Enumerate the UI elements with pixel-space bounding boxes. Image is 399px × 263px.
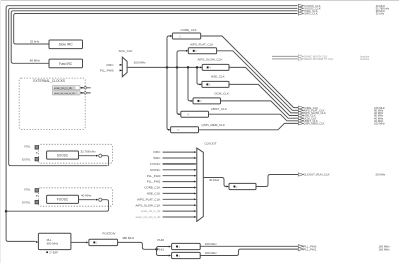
svg-text:160 MHz: 160 MHz <box>379 247 391 251</box>
wire AIPS_PLAT_CLK fan to output <box>217 51 299 111</box>
svg-text:40 MHz: 40 MHz <box>81 194 92 198</box>
wire CORE_CLK fan to output <box>201 36 299 108</box>
wire FXOSC pad to left riser <box>6 200 109 212</box>
output arrow QSPI_MEM_CLK <box>298 122 385 126</box>
svg-text:LBIST_CLK: LBIST_CLK <box>211 107 227 111</box>
svg-text:HSE_CLK: HSE_CLK <box>211 74 225 78</box>
wire FXOSC net: top-left outer loop from FXOSC output to FXOSC_CLK arrow and down to PLL <box>6 6 297 242</box>
output arrow AIPS_PLAT_CLK <box>298 109 384 113</box>
output arrow PLL_PHI0 <box>298 245 390 249</box>
output arrow FIRC_CLK <box>298 9 385 13</box>
svg-text:HSE_CLK: HSE_CLK <box>147 192 161 196</box>
pin XTAL of SXOSC <box>24 145 39 154</box>
svg-text:40 MHz: 40 MHz <box>209 178 220 182</box>
svg-text:PLL_PHI1: PLL_PHI1 <box>304 247 317 251</box>
svg-text:FXOSC: FXOSC <box>57 198 69 202</box>
pad SXOSC output <box>99 154 102 157</box>
svg-text:emac_mii_rmii_tx_clk: emac_mii_rmii_tx_clk <box>54 92 76 95</box>
wire EMAC MII RX (inactive) <box>272 55 370 59</box>
svg-text:XTAL: XTAL <box>24 188 31 192</box>
divider QSPI_MEM_CLK /1 <box>171 123 225 133</box>
pad FXOSC output <box>99 198 102 201</box>
note PLL exponent footnote <box>46 251 58 255</box>
svg-text:SXOSC: SXOSC <box>150 168 161 172</box>
output arrow FXOSC_CLK <box>298 4 385 8</box>
wire QSPI_MEM_CLK fan to output <box>199 123 299 129</box>
output arrow LBIST_CLK <box>298 119 384 123</box>
wire AIPS_SLOW_CLK fan to output <box>229 67 299 113</box>
junction SCG bus tap DCM <box>187 66 190 69</box>
oscillator Fast IRC <box>49 59 83 68</box>
svg-text:PHI1: PHI1 <box>157 248 164 252</box>
pin SXOSC into CLKOUT mux <box>150 168 197 172</box>
svg-text:48 MHz: 48 MHz <box>30 59 41 63</box>
svg-text:DCM_CLK: DCM_CLK <box>215 91 229 95</box>
divider LBIST_CLK /4 <box>181 107 227 117</box>
svg-text:32 kHz: 32 kHz <box>30 39 40 43</box>
wire CLKOUT divider to output arrow <box>256 175 299 187</box>
pin diamond emac_mii_rmii_tx_clk <box>80 91 91 94</box>
svg-text:emac_mii_rmii_tx_clk: emac_mii_rmii_tx_clk <box>136 215 161 219</box>
svg-text:PLL_PHI1: PLL_PHI1 <box>147 180 161 184</box>
node emac_mii_rmii_tx_clk <box>53 91 81 95</box>
svg-text:FIRC: FIRC <box>107 63 115 67</box>
svg-text:PLL_PHI0: PLL_PHI0 <box>147 174 161 178</box>
wire LBIST_CLK fan to output <box>209 114 299 121</box>
svg-text:emac_mii_rx_clk: emac_mii_rx_clk <box>141 209 161 213</box>
divider HSE_CLK /2 <box>202 74 229 87</box>
svg-text:QSPI_MEM_CLK: QSPI_MEM_CLK <box>304 122 325 126</box>
pin FIRC into SCG mux <box>107 63 123 67</box>
output arrow DCM_CLK <box>298 116 384 120</box>
wire tap to QSPI divider <box>167 67 169 129</box>
divider CLKOUT /2 <box>229 183 256 189</box>
wire CLKOUT mux output to postdivider <box>203 178 226 187</box>
svg-text:SCG_CLK: SCG_CLK <box>119 49 133 53</box>
svg-text:AIPS_PLAT_CLK: AIPS_PLAT_CLK <box>190 43 213 47</box>
pin CORE_CLK into CLKOUT mux <box>144 186 196 190</box>
divider AIPS_SLOW_CLK /4 (in line with bus) <box>198 57 230 70</box>
component PLL <box>38 233 71 249</box>
divider CORE_CLK /1 <box>172 28 200 39</box>
svg-text:FXOSC: FXOSC <box>150 162 161 166</box>
pin SIRC into CLKOUT mux <box>153 156 196 160</box>
junction FXOSC return joins vertical <box>5 210 8 213</box>
wire tap to DCM divider <box>188 67 191 101</box>
svg-text:Inactive: Inactive <box>360 57 370 61</box>
divider POSTDIV /2 <box>89 232 118 246</box>
svg-text:XTAL: XTAL <box>24 145 31 149</box>
external clocks dashed box <box>19 78 85 129</box>
svg-text:Slow IRC: Slow IRC <box>59 43 74 47</box>
divider PHI0 /3 <box>157 238 200 249</box>
svg-text:CLKOUT_RUN_CLK: CLKOUT_RUN_CLK <box>304 173 330 177</box>
wire split to PHI1 divider <box>157 249 169 255</box>
junction SCG bus tap CORE/QSPI <box>166 66 169 69</box>
wire PHI1 to output arrow <box>200 249 298 255</box>
pin FIRC into CLKOUT mux <box>153 150 196 154</box>
junction SCG bus tap AIPS_PLAT/LBIST <box>176 66 179 69</box>
pin PLL_PHI1 into CLKOUT mux <box>147 180 197 184</box>
mux SCG_CLK (MUX_0) <box>119 49 133 77</box>
svg-text:EXTAL: EXTAL <box>22 158 31 162</box>
pin XTAL of FXOSC <box>24 188 39 197</box>
wire SXOSC pad to left riser <box>102 156 109 166</box>
output arrow CORE_CLK <box>298 106 385 110</box>
svg-text:emac_mii_rx_clk: emac_mii_rx_clk <box>54 87 73 90</box>
svg-text:QSPI_MEM_CLK: QSPI_MEM_CLK <box>202 123 225 127</box>
wire tap to CORE divider <box>167 36 170 67</box>
pin diamond emac_mii_rx_clk <box>80 86 91 89</box>
svg-text:960 MHz: 960 MHz <box>47 241 59 245</box>
mux CLKOUT <box>197 141 217 221</box>
divider PHI1 /3 <box>157 248 200 259</box>
wire split to PHI0 divider <box>157 247 169 250</box>
svg-text:CORE_CLK: CORE_CLK <box>181 28 197 32</box>
junction SCG bus tap HSE <box>196 66 199 69</box>
node emac_mii_rx_clk <box>53 86 81 90</box>
svg-text:160 MHz: 160 MHz <box>374 122 385 126</box>
divider DCM_CLK /4 <box>193 91 229 104</box>
pin EXTAL of FXOSC <box>22 200 38 204</box>
wire tap to HSE divider <box>197 67 200 84</box>
svg-text:EMAC MII RMII TX CLK: EMAC MII RMII TX CLK <box>305 57 334 61</box>
svg-text:POSTDIV: POSTDIV <box>102 232 115 236</box>
svg-text:32 kHz: 32 kHz <box>376 12 385 16</box>
wire SIRC net: inner loop from Slow IRC to SIRC_CLK arrow <box>14 14 298 45</box>
svg-text:Fast IRC: Fast IRC <box>59 62 73 66</box>
wire DCM_CLK fan to output <box>221 101 299 118</box>
pin emac_mii_rx_clk into CLKOUT mux <box>141 209 197 213</box>
oscillator FXOSC dashed enclosure <box>39 188 113 206</box>
oscillator SXOSC <box>47 151 79 159</box>
svg-text:20 MHz: 20 MHz <box>376 173 386 177</box>
wire SXOSC net: second loop from SXOSC output to SXOSC_CLK arrow <box>9 8 298 165</box>
wire tap to LBIST divider <box>177 67 179 114</box>
wire PLL output to POSTDIV <box>71 241 86 243</box>
output arrow PLL_PHI1 <box>298 247 390 251</box>
svg-text:2^-EXP: 2^-EXP <box>49 251 58 255</box>
oscillator Slow IRC <box>49 40 83 49</box>
divider AIPS_PLAT_CLK /2 <box>188 43 216 54</box>
pin AIPS_SLOW_CLK into CLKOUT mux <box>136 203 197 207</box>
svg-text:160 MHz: 160 MHz <box>205 251 218 255</box>
output arrow SXOSC_CLK <box>298 7 389 11</box>
svg-text:AIPS_SLOW_CLK: AIPS_SLOW_CLK <box>198 57 223 61</box>
svg-text:SIRC_CLK: SIRC_CLK <box>305 12 318 16</box>
svg-text:160 MHz: 160 MHz <box>205 242 218 246</box>
oscillator SXOSC dashed enclosure <box>39 144 113 163</box>
pin PLL_PHI0 into CLKOUT mux <box>147 174 197 178</box>
svg-text:PHI0: PHI0 <box>157 238 164 242</box>
output arrow AIPS_SLOW_CLK <box>298 111 384 115</box>
pin arrow into PLL <box>36 241 39 243</box>
oscillator FXOSC <box>47 195 79 203</box>
svg-text:480 MHz: 480 MHz <box>122 236 135 240</box>
output arrow CLKOUT_RUN_CLK <box>298 173 385 177</box>
pin PLL_PHI0 into SCG mux <box>100 69 123 73</box>
svg-text:CLKOUT: CLKOUT <box>205 141 217 145</box>
svg-text:SXOSC: SXOSC <box>57 153 69 157</box>
pin emac_mii_rmii_tx_clk into CLKOUT mux <box>136 215 197 219</box>
svg-text:EXTERNAL_CLOCKS: EXTERNAL_CLOCKS <box>33 79 65 83</box>
output arrow SIRC_CLK <box>298 12 384 16</box>
wire tap to AIPS_PLAT divider <box>177 51 186 68</box>
svg-text:EXTAL: EXTAL <box>22 201 31 205</box>
wire FIRC net: third loop from Fast IRC to FIRC_CLK arrow <box>11 11 297 64</box>
junction PHI split <box>155 248 158 251</box>
svg-text:160 MHz: 160 MHz <box>134 60 147 64</box>
wire PHI0 to output arrow <box>200 245 298 247</box>
svg-text:AIPS_PLAT_CLK: AIPS_PLAT_CLK <box>137 197 160 201</box>
wire FXOSC output to pad <box>79 199 96 201</box>
pin AIPS_PLAT_CLK into CLKOUT mux <box>137 197 196 201</box>
wire POSTDIV output to PHI split <box>118 242 157 249</box>
pin EXTAL of SXOSC <box>22 157 38 161</box>
svg-text:PLL_PHI0: PLL_PHI0 <box>100 69 114 73</box>
wire HSE_CLK fan to output <box>229 84 299 115</box>
svg-text:32.768 kHz: 32.768 kHz <box>80 149 96 153</box>
wire EMAC MII RMII TX (inactive) <box>272 57 370 61</box>
svg-text:CORE_CLK: CORE_CLK <box>144 186 160 190</box>
svg-text:AIPS_SLOW_CLK: AIPS_SLOW_CLK <box>136 203 161 207</box>
wire SCG bus from mux to AIPS_SLOW divider <box>127 66 200 68</box>
wire SXOSC output to pad <box>79 155 96 157</box>
svg-text:FIRC: FIRC <box>153 150 161 154</box>
output arrow HSE_CLK <box>298 114 384 118</box>
svg-text:SIRC: SIRC <box>153 156 161 160</box>
pin HSE_CLK into CLKOUT mux <box>147 192 197 196</box>
pin FXOSC into CLKOUT mux (selected, bold) <box>150 162 197 166</box>
